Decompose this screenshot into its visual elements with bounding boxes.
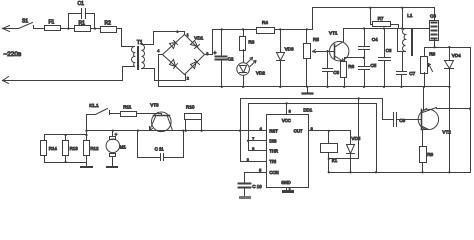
svg-text:C7: C7 [409, 71, 415, 76]
wire TRI stub [241, 161, 267, 163]
capacitor C2 polarized [214, 30, 234, 87]
transistor VT1 [328, 29, 349, 62]
node left vertical resistor rail [85, 134, 87, 136]
svg-text:L1: L1 [407, 13, 413, 18]
wire DIS stub [249, 140, 267, 142]
svg-text:R12: R12 [90, 146, 99, 151]
wire K1.1 left vertical [86, 115, 88, 141]
svg-text:F1: F1 [49, 20, 55, 26]
svg-text:VD5: VD5 [351, 136, 360, 141]
variable capacitor C8 [430, 8, 439, 48]
transformer T1 primary winding [132, 40, 143, 67]
svg-text:C3: C3 [333, 70, 339, 75]
svg-text:7: 7 [252, 137, 254, 141]
svg-text:THR: THR [269, 148, 278, 153]
collector rail VT1 [345, 28, 430, 30]
capacitor C11 [138, 131, 184, 161]
diode VD5 [347, 131, 361, 173]
transistor VT3 [150, 102, 173, 131]
svg-text:C5: C5 [370, 63, 376, 68]
svg-text:R14: R14 [49, 146, 58, 151]
node K1 bottom rail [328, 171, 330, 173]
svg-text:R5: R5 [313, 37, 319, 42]
ground bar below R12 [80, 166, 93, 168]
node wire B bottom rail [375, 171, 377, 173]
capacitor C1 [69, 1, 95, 28]
svg-text:C9: C9 [399, 118, 405, 123]
wire detector top line [425, 47, 471, 49]
node K1 bottom branch [328, 158, 330, 160]
wire bridge minus to ground rail [159, 55, 163, 87]
node R9 bottom [421, 171, 423, 173]
zener diode VD3 [277, 30, 294, 87]
svg-text:VD4: VD4 [452, 53, 461, 58]
svg-text:C 10: C 10 [252, 184, 262, 189]
node C8 bottom [433, 46, 435, 48]
wire emitter tap to C4 C5 midpoint [345, 58, 365, 62]
node L1 rail junction [401, 27, 403, 29]
wire R1 to R2 [91, 28, 101, 30]
node R13 top [64, 134, 66, 136]
transistor VT2 [418, 87, 470, 135]
svg-text:4: 4 [157, 49, 159, 53]
node C5 ground [363, 86, 365, 88]
node C11 left [137, 130, 139, 132]
wire resistor bottom rail [45, 157, 87, 166]
capacitor C3 [323, 52, 340, 87]
svg-text:K1.1: K1.1 [89, 103, 99, 108]
resistor R13 [63, 141, 79, 156]
node RST crossing [239, 130, 241, 132]
wire mains line L with arrow [3, 26, 19, 32]
capacitor C7 [397, 71, 416, 87]
wire bridge plus up to supply rail [205, 30, 213, 55]
ground symbol below R5 [303, 87, 313, 94]
resistor R1 [75, 21, 91, 32]
wire secondary bottom to bridge AC bottom [142, 69, 186, 81]
svg-text:R7: R7 [378, 16, 384, 21]
svg-text:R6: R6 [348, 64, 354, 69]
node VCC tap [285, 102, 287, 104]
node R5 ground rail [306, 86, 308, 88]
svg-text:M1: M1 [120, 145, 127, 150]
node R10 left [185, 130, 187, 132]
svg-text:VT1: VT1 [329, 31, 338, 36]
long wire to RST [87, 130, 267, 132]
svg-text:R3: R3 [248, 39, 254, 44]
ground rail [159, 86, 450, 88]
svg-text:VCC: VCC [282, 118, 291, 123]
inductor L1 [398, 8, 413, 72]
wire relay return to wire A [329, 99, 359, 159]
wire THR stub [249, 150, 267, 152]
resistor R2 [101, 21, 117, 33]
capacitor C4 [359, 29, 379, 58]
node VD4 bottom rail [448, 171, 450, 173]
resistor R11 [121, 105, 162, 117]
resistor R7 [371, 8, 399, 29]
node R3 top [242, 28, 244, 30]
svg-text:1: 1 [187, 33, 189, 37]
node L1 top [401, 7, 403, 9]
node VD2 ground [242, 86, 244, 88]
svg-text:R2: R2 [105, 21, 112, 27]
svg-text:6: 6 [252, 147, 254, 151]
node R13 bottom [64, 161, 66, 163]
svg-text:VD2: VD2 [256, 71, 265, 76]
node R6 ground [343, 86, 345, 88]
wire mains line N with arrow [3, 67, 135, 84]
svg-text:C 11: C 11 [155, 147, 165, 152]
transformer T1 secondary winding [142, 45, 145, 69]
svg-text:VD3: VD3 [285, 47, 294, 52]
node C4 C5 midpoint [363, 57, 365, 59]
node K1 top [328, 130, 330, 132]
node C3 ground [326, 86, 328, 88]
motor M1 [106, 131, 126, 166]
node left vertical RST line [85, 130, 87, 132]
potentiometer R5 [304, 30, 328, 87]
svg-text:C1: C1 [78, 1, 85, 7]
svg-text:VD1: VD1 [194, 36, 203, 41]
svg-text:2: 2 [187, 77, 189, 81]
wire R2 to transformer primary top [117, 29, 135, 47]
node junction at R1 right [94, 27, 96, 29]
node C6 top [383, 27, 385, 29]
supply rail +DC [213, 8, 313, 30]
node VD3 ground [279, 86, 281, 88]
transformer T1 core [137, 46, 139, 70]
svg-text:VT3: VT3 [150, 102, 159, 107]
svg-text:GND: GND [281, 180, 290, 185]
wire resistor top rail [45, 135, 87, 141]
node base junction [326, 50, 328, 52]
capacitor C5 [359, 58, 377, 87]
resistor R14 [41, 141, 58, 156]
resistor R4 in series on rail [257, 20, 275, 33]
capacitor C6 [379, 29, 392, 87]
svg-text:C4: C4 [372, 37, 378, 42]
svg-text:R8: R8 [429, 51, 435, 56]
node motor tap [112, 130, 114, 132]
wire VCC stub [286, 104, 288, 115]
diode bridge VD1 [157, 29, 208, 80]
svg-text:R11: R11 [123, 105, 132, 110]
node VD3 top [279, 28, 281, 30]
resistor R10 [185, 104, 202, 130]
svg-text:+: + [214, 50, 217, 56]
resistor R6 [341, 62, 355, 87]
svg-text:R13: R13 [70, 146, 79, 151]
ground bar DD1 GND pin [282, 188, 294, 194]
wire secondary top to bridge AC top [142, 32, 185, 45]
node R10 right [200, 130, 202, 132]
svg-text:R10: R10 [186, 104, 195, 109]
resistor R9 [420, 130, 434, 173]
svg-text:~220в: ~220в [4, 51, 22, 58]
svg-text:TRI: TRI [269, 159, 276, 164]
bottom rail [329, 172, 471, 174]
fuse F1 [45, 20, 61, 31]
wire right edge vertical [470, 48, 472, 173]
svg-text:8: 8 [289, 110, 291, 114]
relay contact K1.1 [87, 103, 121, 115]
node VD4 top [448, 46, 450, 48]
svg-text:+: + [115, 132, 118, 137]
node DIS tap [247, 140, 249, 142]
capacitor C10 [239, 173, 267, 196]
inductor L1 core [411, 28, 413, 56]
wire A upper [241, 99, 383, 162]
node VD4 ground rail crossing [448, 86, 450, 88]
svg-text:2: 2 [247, 158, 249, 162]
svg-text:DD1: DD1 [303, 108, 312, 113]
node C7 ground [400, 86, 402, 88]
node junction at R1 left [67, 27, 69, 29]
node C6 ground [383, 86, 385, 88]
wire F1 to R1 [61, 28, 75, 30]
switch S1 [19, 18, 45, 28]
diode VD4 [445, 48, 462, 173]
node C4 top [363, 27, 365, 29]
resistor R12 [84, 141, 100, 156]
relay coil K1 [321, 131, 338, 173]
node VD5 bottom [349, 171, 351, 173]
svg-text:R1: R1 [79, 21, 86, 27]
node VT2 collector right [469, 108, 471, 110]
capacitor C9 [383, 113, 422, 127]
ground bar below M1 [106, 166, 118, 168]
svg-text:OUT: OUT [294, 128, 303, 133]
LED VD2 [237, 50, 266, 87]
top supply rail [313, 7, 435, 9]
svg-text:C2: C2 [228, 57, 234, 62]
svg-text:R4: R4 [262, 20, 268, 25]
svg-text:DIS: DIS [269, 139, 276, 144]
node R8 VT2 ground [423, 86, 425, 88]
node R7 top [369, 7, 371, 9]
svg-text:RST: RST [269, 128, 278, 133]
svg-text:C8: C8 [430, 14, 436, 19]
node C11 right [182, 130, 184, 132]
IC DD1 timer [247, 108, 313, 192]
node R5 top [306, 28, 308, 30]
ground bar C10 [239, 196, 251, 199]
wire B lower [249, 104, 377, 173]
svg-text:R9: R9 [427, 152, 433, 157]
svg-text:C6: C6 [386, 48, 392, 53]
potentiometer R8 [421, 48, 436, 87]
resistor R3 [240, 30, 255, 51]
node C2 top [221, 28, 223, 30]
svg-text:CON: CON [269, 170, 278, 175]
wire OUT line [309, 130, 351, 132]
node wire A relay branch [358, 97, 360, 99]
svg-text:VT2: VT2 [442, 130, 451, 135]
node C2 ground [221, 86, 223, 88]
svg-text:S1: S1 [22, 18, 28, 24]
